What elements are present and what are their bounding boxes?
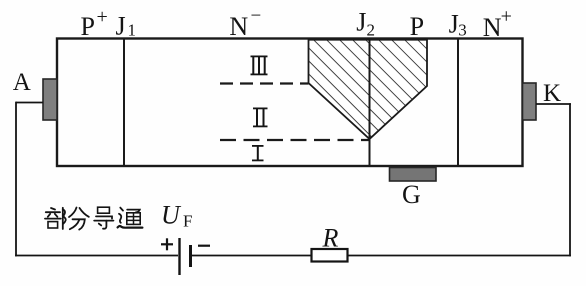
svg-text:J: J <box>449 10 459 39</box>
anode electrode (gray) <box>43 79 57 120</box>
chinese text: tong (通) <box>118 208 143 228</box>
wire: cathode lead <box>536 103 571 105</box>
resistor R body <box>312 249 348 262</box>
wire: right vertical <box>569 103 571 256</box>
svg-text:N: N <box>229 12 248 41</box>
region label II <box>253 108 268 128</box>
svg-text:1: 1 <box>128 21 137 40</box>
svg-text:F: F <box>183 212 192 231</box>
chinese text: dao (导) <box>94 207 113 229</box>
svg-text:+: + <box>501 6 512 28</box>
chinese text: fen (分) <box>69 208 89 230</box>
svg-text:P: P <box>410 12 424 41</box>
svg-text:+: + <box>97 6 108 28</box>
svg-text:3: 3 <box>458 21 467 40</box>
junction J3 line <box>457 38 459 166</box>
cathode electrode (gray) <box>523 83 537 120</box>
battery plus sign <box>161 238 173 250</box>
hatched conduction region <box>309 40 428 139</box>
wire: anode lead <box>16 102 43 104</box>
battery minus sign <box>198 245 210 247</box>
svg-text:−: − <box>251 6 262 27</box>
dashed boundary line below region II <box>220 139 369 141</box>
wire: resistor to right corner <box>348 255 571 257</box>
gate electrode (gray) <box>390 168 437 182</box>
dashed boundary line below region III <box>220 82 309 84</box>
svg-text:A: A <box>13 69 31 96</box>
svg-text:J: J <box>356 8 366 37</box>
region label III <box>251 56 268 76</box>
battery negative plate (short) <box>189 245 192 267</box>
chinese text: bu (部) <box>45 208 66 229</box>
region label I <box>252 145 264 161</box>
wire: left vertical <box>15 102 17 257</box>
svg-text:G: G <box>402 180 421 209</box>
junction J1 line <box>123 38 125 166</box>
wire: battery to resistor <box>192 255 312 257</box>
device body rectangle (thyristor cross-section) <box>57 39 523 167</box>
battery positive plate (long) <box>178 238 180 275</box>
svg-text:J: J <box>116 12 126 41</box>
svg-text:2: 2 <box>367 21 376 40</box>
svg-text:P: P <box>81 12 95 41</box>
svg-text:K: K <box>543 80 561 107</box>
svg-text:R: R <box>322 224 339 253</box>
junction J2 line <box>369 38 371 166</box>
wire: bottom left to battery <box>15 255 178 257</box>
svg-text:U: U <box>161 201 182 230</box>
svg-text:N: N <box>483 13 502 42</box>
